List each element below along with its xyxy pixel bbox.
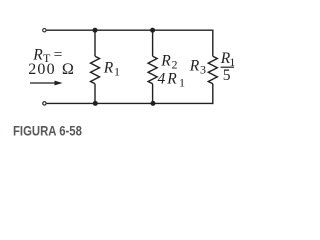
svg-text:Ω: Ω — [62, 61, 74, 78]
svg-text:R: R — [189, 58, 200, 75]
svg-text:3: 3 — [200, 63, 206, 77]
svg-text:5: 5 — [223, 67, 231, 84]
svg-text:1: 1 — [114, 65, 120, 79]
svg-text:R: R — [160, 53, 171, 70]
svg-text:4: 4 — [158, 70, 166, 87]
svg-text:R: R — [166, 70, 177, 87]
svg-text:R: R — [103, 60, 114, 77]
svg-text:1: 1 — [179, 75, 185, 89]
svg-text:200: 200 — [28, 61, 56, 78]
svg-text:FIGURA 6-58: FIGURA 6-58 — [13, 122, 82, 139]
